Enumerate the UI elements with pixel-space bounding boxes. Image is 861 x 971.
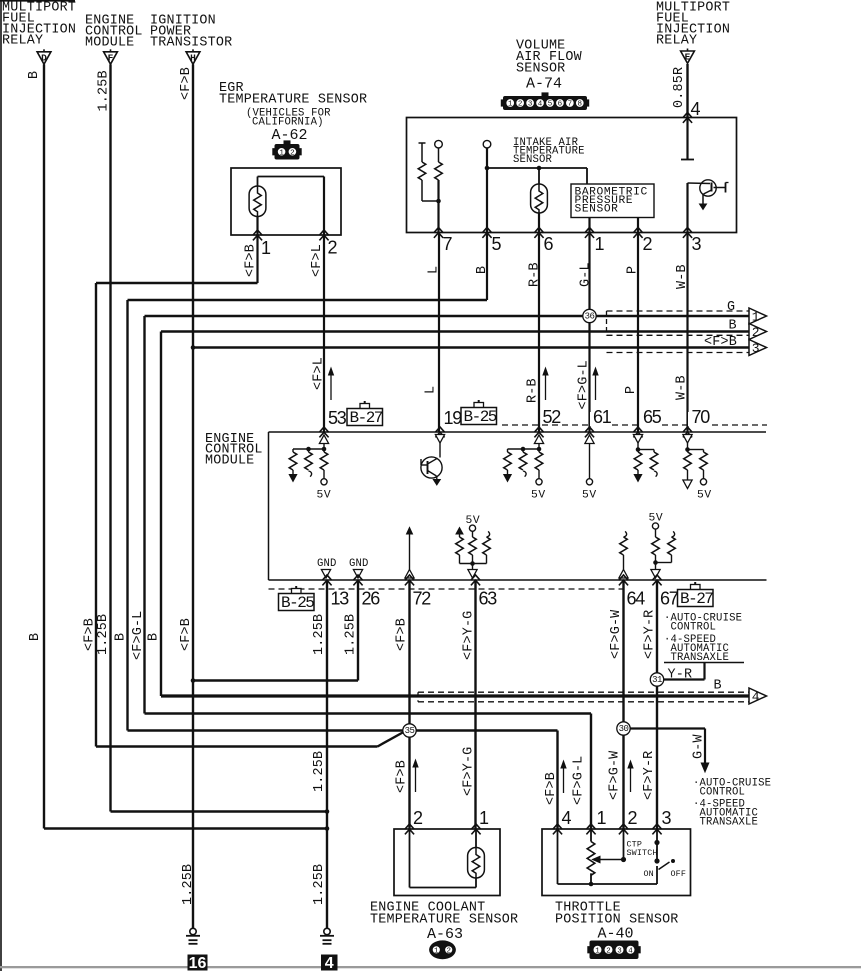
svg-text:6: 6 [558, 101, 563, 109]
svg-text:1: 1 [597, 808, 607, 828]
svg-text:4: 4 [691, 99, 701, 119]
svg-text:36: 36 [585, 312, 595, 322]
svg-text:1: 1 [479, 808, 489, 828]
svg-text:B: B [27, 71, 42, 79]
svg-text:1.25B: 1.25B [312, 864, 327, 905]
svg-text:G-W: G-W [692, 734, 707, 759]
svg-text:CONTROL: CONTROL [700, 787, 746, 799]
svg-text:2: 2 [290, 149, 295, 157]
svg-text:7: 7 [443, 234, 453, 254]
svg-text:B: B [475, 266, 490, 274]
svg-text:<F>B: <F>B [179, 67, 194, 100]
svg-text:1: 1 [595, 234, 605, 254]
svg-text:2: 2 [752, 325, 759, 340]
svg-text:CONTROL: CONTROL [671, 622, 717, 634]
svg-text:B: B [147, 633, 162, 641]
svg-text:<F>G-W: <F>G-W [608, 750, 623, 800]
svg-text:MODULE: MODULE [205, 453, 254, 468]
svg-text:A-74: A-74 [526, 76, 562, 93]
svg-text:OFF: OFF [671, 869, 687, 879]
svg-text:RELAY: RELAY [656, 34, 697, 49]
svg-text:B: B [729, 319, 737, 334]
svg-text:<F>Y-G: <F>Y-G [462, 747, 477, 796]
svg-text:3: 3 [617, 947, 622, 955]
svg-text:MODULE: MODULE [85, 36, 134, 51]
svg-text:SWITCH: SWITCH [627, 848, 658, 858]
svg-text:3: 3 [752, 341, 759, 356]
svg-text:SENSOR: SENSOR [516, 62, 565, 77]
svg-text:H: H [190, 52, 196, 63]
svg-text:3: 3 [692, 234, 702, 254]
svg-text:RELAY: RELAY [2, 34, 43, 49]
svg-text:<F>L: <F>L [310, 244, 325, 277]
svg-text:30: 30 [619, 724, 629, 734]
svg-text:1.25B: 1.25B [97, 70, 112, 111]
svg-text:D: D [41, 52, 47, 63]
svg-text:TEMPERATURE SENSOR: TEMPERATURE SENSOR [219, 93, 367, 108]
svg-text:2: 2 [328, 238, 338, 258]
svg-text:63: 63 [479, 589, 498, 609]
svg-text:1.25B: 1.25B [312, 614, 327, 655]
svg-text:61: 61 [593, 407, 612, 427]
svg-text:5V: 5V [317, 490, 332, 502]
svg-text:4: 4 [628, 947, 633, 955]
svg-text:B-25: B-25 [281, 594, 314, 612]
svg-text:1: 1 [279, 149, 284, 157]
svg-text:<F>Y-R: <F>Y-R [642, 751, 657, 800]
svg-text:5V: 5V [697, 490, 712, 502]
svg-text:8: 8 [578, 101, 583, 109]
svg-text:65: 65 [643, 407, 662, 427]
svg-text:<F>B: <F>B [244, 244, 259, 277]
svg-text:2: 2 [628, 808, 638, 828]
svg-text:L: L [427, 266, 442, 274]
svg-text:B: B [28, 633, 43, 641]
svg-text:7: 7 [568, 101, 573, 109]
svg-text:G: G [727, 300, 735, 315]
svg-text:GND: GND [349, 558, 369, 570]
svg-text:1.25B: 1.25B [344, 614, 359, 655]
svg-text:2: 2 [606, 947, 611, 955]
svg-text:TRANSISTOR: TRANSISTOR [150, 36, 232, 51]
svg-text:G-L: G-L [579, 262, 594, 287]
svg-text:4: 4 [562, 808, 572, 828]
svg-text:<F>L: <F>L [312, 357, 327, 390]
svg-text:<F>B: <F>B [395, 760, 410, 793]
svg-text:1: 1 [752, 310, 760, 325]
svg-text:4: 4 [538, 101, 543, 109]
svg-text:2: 2 [446, 948, 451, 956]
svg-text:<F>B: <F>B [704, 335, 737, 350]
svg-text:F: F [108, 52, 114, 63]
svg-text:<F>G-L: <F>G-L [131, 611, 146, 660]
svg-text:1.25B: 1.25B [96, 614, 111, 655]
svg-text:<F>G-L: <F>G-L [572, 756, 587, 805]
svg-text:31: 31 [652, 675, 662, 685]
svg-text:2: 2 [413, 808, 423, 828]
svg-text:1: 1 [261, 238, 271, 258]
svg-text:2: 2 [518, 101, 523, 109]
svg-text:<F>B: <F>B [395, 618, 410, 651]
svg-text:52: 52 [543, 407, 562, 427]
svg-text:<F>G-W: <F>G-W [609, 609, 624, 659]
svg-text:SENSOR: SENSOR [575, 204, 619, 216]
svg-text:A-63: A-63 [427, 926, 463, 943]
svg-text:A-40: A-40 [598, 926, 634, 943]
svg-text:B-27: B-27 [680, 590, 713, 608]
svg-text:Y-R: Y-R [668, 668, 693, 683]
svg-text:L: L [424, 386, 439, 394]
svg-text:2: 2 [643, 234, 653, 254]
svg-text:1: 1 [434, 948, 439, 956]
svg-text:GND: GND [317, 558, 337, 570]
svg-text:TRANSAXLE: TRANSAXLE [700, 817, 759, 829]
svg-text:B: B [714, 679, 722, 694]
svg-text:<F>G-L: <F>G-L [577, 360, 592, 409]
svg-text:1: 1 [508, 101, 513, 109]
svg-text:R-B: R-B [526, 378, 541, 403]
svg-text:5V: 5V [531, 490, 546, 502]
svg-text:1.25B: 1.25B [312, 751, 327, 792]
svg-text:P: P [626, 266, 641, 274]
svg-text:W-B: W-B [675, 264, 690, 289]
svg-text:ON: ON [644, 869, 654, 879]
svg-text:5: 5 [492, 234, 502, 254]
svg-text:19: 19 [444, 408, 463, 428]
svg-text:<F>Y-R: <F>Y-R [643, 610, 658, 659]
svg-text:1.25B: 1.25B [181, 864, 196, 905]
svg-text:SENSOR: SENSOR [513, 154, 553, 166]
svg-text:64: 64 [627, 589, 646, 609]
svg-text:P: P [624, 386, 639, 394]
svg-text:<F>Y-G: <F>Y-G [462, 611, 477, 660]
svg-text:W-B: W-B [675, 375, 690, 400]
svg-text:B-27: B-27 [350, 409, 383, 427]
svg-text:<F>B: <F>B [544, 772, 559, 805]
svg-text:16: 16 [189, 955, 207, 971]
svg-text:1: 1 [595, 947, 600, 955]
svg-text:72: 72 [413, 589, 432, 609]
svg-text:26: 26 [362, 589, 381, 609]
svg-text:4: 4 [752, 690, 760, 705]
svg-text:B-25: B-25 [464, 408, 497, 426]
svg-text:70: 70 [692, 407, 711, 427]
svg-text:13: 13 [331, 589, 350, 609]
svg-text:5: 5 [548, 101, 553, 109]
svg-text:0.85R: 0.85R [672, 67, 687, 108]
svg-text:3: 3 [662, 808, 672, 828]
svg-text:<F>B: <F>B [179, 618, 194, 651]
svg-text:E: E [685, 52, 691, 63]
svg-text:B: B [114, 633, 129, 641]
svg-text:4: 4 [325, 955, 334, 971]
svg-text:6: 6 [544, 234, 554, 254]
svg-text:3: 3 [528, 101, 533, 109]
svg-text:R-B: R-B [528, 262, 543, 287]
svg-text:53: 53 [328, 408, 347, 428]
svg-text:35: 35 [405, 726, 415, 736]
svg-text:67: 67 [660, 589, 679, 609]
svg-text:5V: 5V [582, 490, 597, 502]
